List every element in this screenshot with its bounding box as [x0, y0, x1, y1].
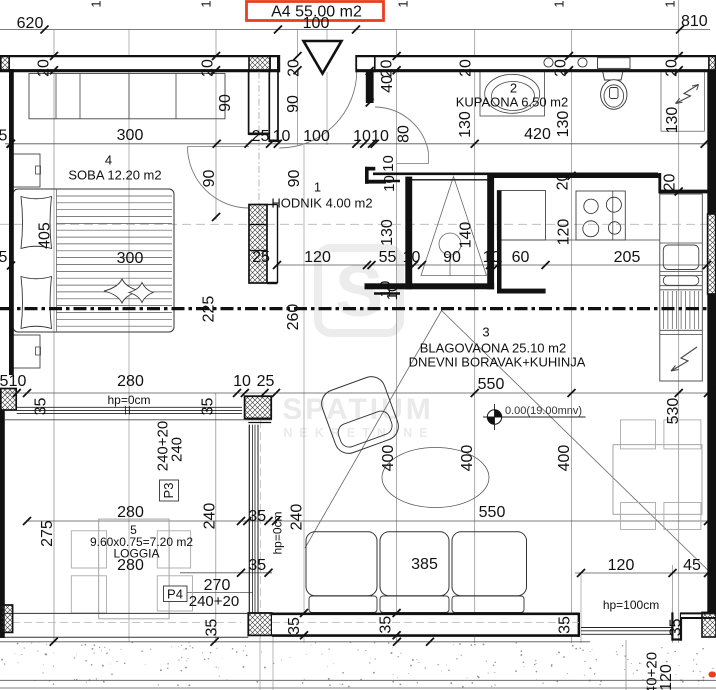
svg-text:P4: P4: [167, 587, 183, 602]
dim line y573: [575, 572, 710, 574]
living south window hp100: [581, 627, 672, 629]
witness line v x327: [326, 30, 328, 146]
fridge: [663, 245, 699, 270]
svg-text:120: 120: [608, 557, 635, 574]
witness line v x396: [396, 30, 398, 644]
svg-text:20: 20: [555, 173, 572, 191]
witness line v x474: [474, 30, 476, 644]
svg-text:420: 420: [524, 126, 551, 143]
pillow bottom: [21, 277, 52, 329]
axis dashed x260 window: [259, 420, 261, 638]
witness line v x672 low: [671, 565, 673, 643]
svg-text:240: 240: [202, 503, 219, 530]
svg-text:385: 385: [411, 556, 438, 573]
svg-text:45: 45: [683, 557, 701, 574]
svg-text:55: 55: [379, 249, 397, 266]
stove: [576, 191, 625, 240]
loggia chair SW: [71, 576, 106, 613]
svg-text:100: 100: [303, 15, 330, 32]
svg-text:KUPAONA 6.50 m2: KUPAONA 6.50 m2: [456, 95, 568, 110]
svg-text:20: 20: [458, 59, 475, 77]
stove burner 1: [584, 199, 598, 213]
dining chair NW: [621, 420, 656, 449]
svg-text:35: 35: [286, 617, 303, 635]
diagonal line right: [441, 310, 716, 578]
P4 box: [164, 586, 188, 602]
nightstand top: [13, 154, 40, 187]
witness line v x216 upper: [215, 30, 217, 221]
shaft wall left: [405, 177, 412, 290]
hatch column soba/hodnik: [249, 56, 270, 71]
soba south window: [17, 406, 242, 408]
svg-text:550: 550: [478, 376, 505, 393]
dim line y573 window: [180, 572, 272, 574]
sofa seats: [309, 596, 377, 613]
svg-text:1: 1: [663, 0, 678, 7]
svg-text:5: 5: [0, 249, 8, 266]
svg-text:10: 10: [403, 249, 421, 266]
toilet bowl: [601, 80, 627, 110]
svg-text:20: 20: [200, 59, 217, 77]
bathroom bottom wall: [373, 173, 658, 176]
kitchen tall units column: [660, 194, 703, 381]
svg-text:20: 20: [286, 59, 303, 77]
svg-text:35: 35: [248, 557, 266, 574]
boiler lightning kitchen: [671, 347, 697, 371]
witness line v x304: [303, 145, 305, 643]
svg-text:130: 130: [664, 107, 681, 134]
loggia chair NE: [157, 531, 190, 568]
terrain line upper: [0, 679, 716, 681]
stove burner 3: [583, 221, 599, 237]
right exterior wall lower: [707, 294, 716, 615]
bed mattress stripes: [57, 189, 173, 332]
svg-text:SOBA 12.20 m2: SOBA 12.20 m2: [68, 168, 161, 183]
shaft circle: [439, 233, 461, 255]
svg-text:hp=100cm: hp=100cm: [603, 598, 659, 612]
svg-text:80: 80: [396, 125, 413, 143]
svg-text:10: 10: [273, 128, 291, 145]
level marker: [494, 404, 496, 430]
left exterior wall: [9, 69, 14, 375]
right exterior wall upper: [707, 72, 716, 214]
sofa back cushions: [306, 532, 377, 596]
svg-text:HODNIK 4.00 m2: HODNIK 4.00 m2: [271, 196, 372, 211]
P3 box: [160, 480, 179, 501]
svg-text:240: 240: [289, 504, 306, 531]
svg-text:S: S: [335, 252, 383, 332]
title red box: [247, 2, 384, 21]
entry door arc: [279, 71, 357, 149]
SE corner band: [681, 612, 716, 619]
left wall hatch block bottom: [1, 605, 13, 632]
hatch column top-right: [709, 56, 716, 71]
left wall hatch block mid: [1, 389, 16, 411]
svg-text:280: 280: [117, 504, 144, 521]
svg-text:120: 120: [556, 219, 573, 246]
witness line v x626 terrain: [625, 640, 627, 690]
witness line v x215: [215, 393, 217, 643]
svg-text:1: 1: [314, 180, 321, 195]
dining table: [613, 445, 702, 515]
bathroom wall step right: [658, 173, 661, 194]
svg-text:20: 20: [379, 60, 396, 78]
drawer bar: [663, 276, 699, 286]
top exterior wall band: [0, 55, 716, 72]
stove burner 4: [608, 222, 620, 234]
bathroom door arc: [375, 107, 429, 153]
SE hatch: [702, 612, 716, 637]
svg-text:240+20: 240+20: [189, 593, 239, 610]
svg-text:35: 35: [668, 618, 685, 636]
svg-text:35: 35: [200, 398, 217, 416]
svg-text:25: 25: [252, 249, 270, 266]
svg-text:400: 400: [380, 445, 397, 472]
loggia table: [99, 519, 169, 619]
dishwasher stripes: [664, 291, 699, 329]
wall cell right of hatch: [269, 55, 271, 72]
shaft lip: [374, 292, 400, 295]
hatch column mid (25): [249, 205, 267, 284]
dim line y265: [277, 264, 708, 266]
svg-text:120: 120: [304, 249, 331, 266]
svg-text:205: 205: [614, 249, 641, 266]
svg-text:810: 810: [681, 13, 708, 30]
soba door arc: [188, 147, 250, 209]
svg-text:1: 1: [89, 0, 104, 7]
bed star decor: [104, 279, 140, 303]
svg-text:35: 35: [378, 616, 395, 634]
witness line v x581 low: [580, 573, 582, 643]
svg-text:60: 60: [512, 249, 530, 266]
witness line v x54: [53, 30, 55, 643]
sink basin 1: [544, 58, 553, 67]
witness line v x678: [678, 0, 680, 643]
svg-text:240: 240: [169, 437, 186, 462]
dim line y521: [27, 520, 708, 522]
south wall band living: [272, 613, 579, 637]
svg-text:90: 90: [285, 95, 302, 113]
lightning bathroom: [676, 85, 699, 104]
svg-text:10: 10: [483, 249, 501, 266]
wall cell right of column: [267, 204, 278, 206]
svg-text:25: 25: [252, 128, 270, 145]
svg-text:4: 4: [105, 153, 112, 168]
pillow top: [21, 197, 52, 249]
svg-text:0.00(19.00mnv): 0.00(19.00mnv): [505, 405, 582, 417]
loggia chair NW: [71, 531, 106, 568]
svg-text:3: 3: [482, 325, 489, 340]
dim ticks: [41, 26, 49, 34]
svg-text:300: 300: [117, 127, 144, 144]
top wall jambs: [278, 55, 280, 72]
SE corner wall piece: [671, 612, 673, 640]
svg-text:10: 10: [9, 373, 27, 390]
witness line v x571: [571, 30, 573, 644]
witness line v x260 terrain: [259, 637, 261, 690]
svg-text:400: 400: [556, 445, 573, 472]
svg-text:P3: P3: [161, 483, 176, 499]
svg-text:275: 275: [39, 520, 56, 547]
svg-text:140: 140: [458, 222, 475, 249]
entrance triangle: [304, 41, 342, 74]
sink basin 2: [578, 58, 587, 67]
svg-text:10: 10: [381, 175, 398, 192]
svg-text:20: 20: [662, 174, 679, 192]
dim line y393: [5, 392, 710, 394]
dining chair NE: [664, 420, 701, 449]
svg-text:530: 530: [665, 398, 682, 425]
bathtub: [480, 71, 545, 117]
svg-text:10: 10: [380, 155, 397, 172]
svg-text:1: 1: [199, 0, 214, 7]
svg-text:270: 270: [204, 577, 231, 594]
terrain stipple: [1, 641, 714, 687]
bathroom door jamb L-piece: [365, 167, 375, 171]
wall cell at entry right: [374, 55, 376, 72]
svg-text:120: 120: [658, 664, 675, 690]
svg-text:SPATIUM: SPATIUM: [282, 393, 434, 426]
svg-text:10: 10: [353, 128, 371, 145]
axis dashed y224: [0, 223, 710, 225]
svg-text:35: 35: [248, 508, 266, 525]
kitchen counter top: [497, 191, 545, 241]
coffee table: [382, 448, 489, 508]
svg-text:40: 40: [379, 75, 396, 93]
witness line v x297: [297, 30, 299, 146]
svg-text:20: 20: [36, 59, 53, 77]
svg-text:hp=0cm: hp=0cm: [107, 393, 150, 407]
svg-text:130: 130: [555, 111, 572, 138]
svg-text:5: 5: [0, 373, 9, 390]
svg-text:NEKRETNINE: NEKRETNINE: [283, 426, 434, 440]
svg-text:2: 2: [510, 81, 517, 96]
diagonal line left: [305, 308, 443, 548]
loggia west wall: [0, 410, 5, 638]
bed: [13, 189, 174, 332]
soba door leaf: [188, 146, 250, 148]
svg-text:300: 300: [117, 250, 144, 267]
witness line v x273 terrain: [272, 637, 274, 690]
svg-text:1: 1: [396, 0, 411, 7]
svg-text:405: 405: [37, 222, 54, 249]
dim line y592 loggia: [187, 592, 253, 594]
svg-text:10: 10: [384, 284, 401, 301]
svg-text:20: 20: [664, 59, 681, 77]
svg-text:BLAGOVAONA 25.10 m2: BLAGOVAONA 25.10 m2: [420, 341, 566, 356]
shaft wall right: [487, 173, 494, 289]
bathroom west wall stub: [366, 70, 374, 103]
svg-text:130: 130: [379, 219, 396, 246]
kitchen wall bottom: [497, 289, 546, 294]
shaft wall bottom: [365, 283, 495, 289]
washing machine in wall: [598, 58, 631, 69]
hatch column top-left: [1, 56, 9, 71]
soba/hodnik wall upper: [248, 70, 250, 135]
shaft triangle: [421, 177, 487, 276]
svg-text:35: 35: [557, 616, 574, 634]
svg-text:10: 10: [233, 373, 251, 390]
toilet tank: [603, 71, 624, 80]
red mark bottom right: [709, 672, 716, 678]
svg-text:LOGGIA: LOGGIA: [113, 547, 159, 561]
living west window: [248, 425, 250, 614]
svg-text:280: 280: [117, 373, 144, 390]
svg-text:90: 90: [286, 170, 303, 188]
svg-text:620: 620: [17, 15, 44, 32]
kitchen wall vertical: [497, 191, 502, 294]
living west column hatch bottom: [248, 613, 271, 635]
svg-text:DNEVNI BORAVAK+KUHINJA: DNEVNI BORAVAK+KUHINJA: [409, 355, 586, 370]
svg-text:hp=0cm: hp=0cm: [271, 511, 285, 554]
loggia chair SE: [157, 576, 192, 611]
niche shelf line: [397, 162, 429, 164]
stove burner 2: [606, 197, 621, 212]
svg-text:90: 90: [201, 170, 218, 188]
svg-text:25: 25: [257, 373, 275, 390]
living west column hatch top: [245, 396, 272, 418]
dining chair SW: [621, 503, 656, 530]
svg-text:550: 550: [479, 504, 506, 521]
loggia inner face line: [5, 419, 272, 421]
electric box bathroom: [661, 71, 705, 132]
watermark logo S: [318, 248, 400, 333]
nightstand bottom: [13, 335, 40, 368]
right wall hatch column: [708, 214, 716, 294]
svg-text:130: 130: [457, 111, 474, 138]
dining chair SE: [664, 503, 701, 530]
dim line y642: [0, 641, 590, 643]
svg-text:5: 5: [0, 128, 8, 145]
terrain line lower: [0, 687, 716, 689]
wardrobe: [29, 74, 225, 119]
loggia parapet: [5, 612, 249, 614]
stove divider: [612, 191, 614, 240]
armchair: [318, 373, 403, 458]
svg-text:1: 1: [552, 0, 567, 7]
svg-text:35: 35: [204, 619, 221, 637]
svg-text:90: 90: [443, 249, 461, 266]
svg-text:100: 100: [303, 128, 330, 145]
svg-text:20: 20: [553, 59, 570, 77]
witness line v x129: [128, 30, 130, 643]
bathroom door leaf: [427, 153, 429, 164]
section dashdot line: [0, 307, 716, 310]
svg-text:10: 10: [371, 128, 389, 145]
dim line top y29: [0, 29, 710, 31]
dim line y144: [5, 143, 710, 145]
svg-text:35: 35: [33, 398, 50, 416]
svg-text:400: 400: [459, 445, 476, 472]
wall centerline dashdot: [258, 58, 260, 283]
svg-text:90: 90: [217, 94, 234, 112]
shaft drop line: [449, 255, 451, 276]
